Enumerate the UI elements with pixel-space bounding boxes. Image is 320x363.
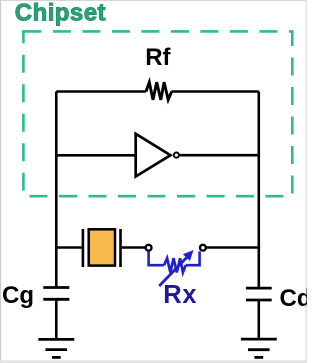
svg-text:Cg: Cg xyxy=(2,282,34,309)
svg-text:Chipset: Chipset xyxy=(15,0,106,26)
svg-text:Cd: Cd xyxy=(280,285,308,312)
svg-text:Rx: Rx xyxy=(163,281,197,309)
svg-text:Rf: Rf xyxy=(145,44,171,71)
